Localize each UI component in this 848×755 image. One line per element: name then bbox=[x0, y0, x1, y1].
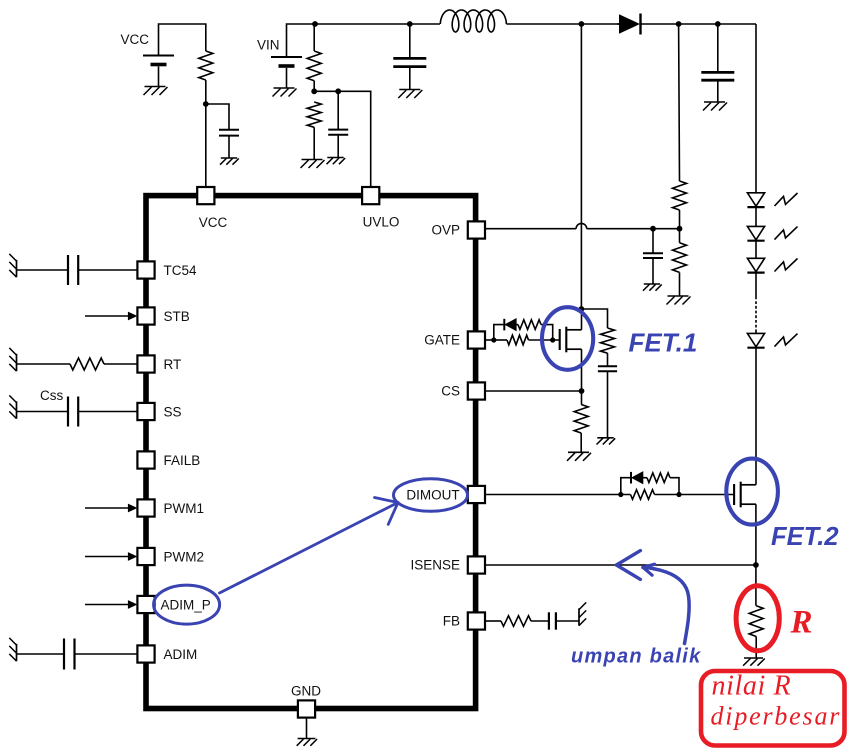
arrow into STB pin bbox=[85, 312, 137, 321]
wire to last LED bbox=[755, 332, 757, 334]
annotation arrow ADIM_P to DIMOUT bbox=[220, 498, 399, 594]
pin SS bbox=[137, 403, 154, 420]
ground under VCC battery bbox=[144, 87, 168, 96]
pin OVP bbox=[468, 221, 485, 238]
pin UVLO bbox=[362, 187, 379, 204]
wire lower resistor to ground bbox=[313, 127, 315, 159]
svg-text:RT: RT bbox=[164, 357, 182, 372]
node output-cap junction bbox=[715, 21, 721, 27]
wire snubber cap to ground bbox=[607, 371, 609, 438]
resistor UVLO divider upper bbox=[307, 51, 321, 81]
resistor current sense R-cs bbox=[574, 405, 588, 434]
annotation ellipse DIMOUT bbox=[394, 479, 468, 512]
wire divider cap to ground bbox=[337, 135, 339, 158]
wire inductor to switch node bbox=[506, 23, 619, 25]
ground under OVP cap bbox=[643, 284, 662, 291]
pin label OVP bbox=[431, 223, 460, 238]
capacitor OVP filter bbox=[643, 253, 663, 258]
wire junction to VCC cap bbox=[206, 104, 229, 130]
svg-text:R: R bbox=[790, 605, 813, 641]
wire TC54 cap to pin bbox=[78, 269, 137, 271]
node divider-cap junction bbox=[335, 88, 341, 94]
ground RT side bbox=[9, 348, 16, 371]
ground TC54 side bbox=[9, 254, 16, 277]
node switch junction bbox=[579, 21, 585, 27]
wire sense node to resistor bbox=[581, 391, 583, 405]
wire VIN battery to rail bbox=[287, 24, 316, 57]
svg-text:PWM1: PWM1 bbox=[164, 501, 205, 516]
node CS junction bbox=[579, 388, 585, 394]
capacitor FB filter bbox=[549, 612, 556, 629]
ground ADIM side bbox=[9, 638, 16, 661]
wire divider resistor to node bbox=[313, 81, 315, 92]
wire FET2 source to ISENSE node bbox=[755, 504, 757, 565]
pin CS bbox=[468, 382, 485, 399]
wire RT ground to resistor bbox=[17, 363, 71, 365]
ground under snubber bbox=[597, 438, 616, 445]
svg-text:UVLO: UVLO bbox=[363, 215, 400, 230]
pin GND bbox=[298, 700, 315, 717]
svg-text:diperbesar: diperbesar bbox=[711, 702, 842, 731]
annotation ellipse ADIM_P bbox=[154, 585, 220, 624]
resistor dim gate drive bbox=[631, 490, 655, 500]
svg-text:FB: FB bbox=[443, 614, 460, 629]
wire divider node to UVLO pin bbox=[314, 91, 371, 187]
node drain-snubber junction bbox=[579, 306, 585, 312]
pin label ISENSE bbox=[410, 558, 460, 573]
pin VCC bbox=[197, 187, 214, 204]
wire FB cap to ground bbox=[556, 620, 579, 622]
annotation curved arrow umpan balik bbox=[643, 564, 689, 643]
capacitor VCC bypass bbox=[219, 130, 239, 136]
wire OVP cap to ground bbox=[652, 258, 654, 284]
wire GATE pin to gate node bbox=[486, 339, 494, 341]
wire VCC cap to ground bbox=[228, 136, 230, 158]
resistor FB filter bbox=[501, 616, 531, 627]
node VCC supply label bbox=[121, 32, 150, 47]
wire dim resistor to gate bbox=[655, 494, 735, 496]
pin label PWM2 bbox=[164, 549, 205, 564]
ground under resistor R bbox=[743, 658, 765, 666]
capacitor output C-out bbox=[701, 72, 734, 80]
annotation ellipse FET.1 bbox=[542, 307, 593, 370]
LED D5 bbox=[747, 333, 797, 347]
annotation ellipse FET.2 bbox=[726, 459, 778, 525]
annotation box nilai R bbox=[701, 671, 845, 746]
svg-text:OVP: OVP bbox=[431, 223, 460, 238]
annotation text FET.2 bbox=[771, 523, 839, 551]
pin ADIM bbox=[137, 645, 154, 662]
pin label ADIM bbox=[164, 647, 198, 662]
wire FET1 drain bbox=[581, 309, 583, 330]
wire OVP resistor to OVP node bbox=[679, 210, 681, 229]
ground under GND pin bbox=[297, 739, 317, 746]
ground under VIN battery bbox=[273, 88, 297, 97]
svg-text:umpan balik: umpan balik bbox=[571, 646, 701, 668]
wire CS pin to sense node bbox=[486, 390, 582, 392]
wire FB pin to resistor bbox=[486, 620, 501, 622]
wire output cap to ground bbox=[717, 80, 719, 102]
arrow into ADIM_P pin bbox=[85, 600, 137, 609]
annotation text FET.1 bbox=[629, 328, 698, 358]
resistor R sense bbox=[749, 606, 763, 637]
resistor gate turn-off bbox=[518, 320, 541, 330]
wire LED string to FET2 drain bbox=[755, 348, 757, 485]
capacitor ADIM series bbox=[64, 639, 75, 670]
pin FB bbox=[468, 612, 485, 629]
wire snubber branch bbox=[581, 309, 607, 328]
value label Css bbox=[40, 388, 63, 403]
wire TC54 ground to cap bbox=[17, 269, 69, 271]
ground SS side bbox=[9, 395, 16, 418]
annotation text nilai R bbox=[712, 671, 792, 702]
IC body outline U1 bbox=[146, 196, 476, 709]
pin label DIMOUT bbox=[406, 488, 459, 503]
svg-text:DIMOUT: DIMOUT bbox=[406, 488, 459, 503]
wire diode to output rail bbox=[641, 23, 757, 25]
node dim branch left bbox=[618, 492, 623, 497]
wire OVP lower resistor to ground bbox=[679, 272, 681, 296]
capacitor snubber bbox=[598, 366, 617, 371]
wire rail to divider resistor bbox=[313, 24, 315, 51]
pin TC54 bbox=[137, 261, 154, 278]
pin label STB bbox=[164, 309, 190, 324]
inductor L1 boost coil bbox=[440, 10, 506, 32]
svg-text:FET.2: FET.2 bbox=[771, 523, 839, 551]
svg-text:PWM2: PWM2 bbox=[164, 549, 205, 564]
wire OVP pin segment bbox=[486, 228, 576, 230]
wire DIMOUT pin to gate network bbox=[486, 494, 631, 496]
resistor VCC series bbox=[199, 51, 213, 80]
wire hop over switch line bbox=[576, 223, 587, 228]
pin GATE bbox=[468, 331, 485, 348]
wire gate upper branch left bbox=[494, 325, 505, 340]
svg-text:SS: SS bbox=[164, 404, 182, 419]
capacitor Css soft-start bbox=[68, 397, 78, 427]
resistor OVP divider upper bbox=[673, 181, 687, 210]
node OVP-cap junction bbox=[650, 226, 656, 232]
wire resistor R to ground bbox=[755, 637, 757, 659]
wire GND pin to ground bbox=[306, 717, 308, 739]
resistor dim turn-off bbox=[647, 473, 670, 483]
pin FAILB bbox=[137, 451, 154, 468]
wire snubber resistor to cap bbox=[607, 353, 609, 366]
wire node to resistor R bbox=[755, 565, 757, 606]
wire output rail to LED string bbox=[755, 24, 757, 297]
node ISENSE junction bbox=[753, 562, 759, 568]
wire dim upper branch left bbox=[621, 478, 631, 495]
wire OVP to divider node bbox=[587, 228, 680, 230]
diode dim turn-off bbox=[631, 472, 643, 484]
ground under divider bbox=[301, 160, 325, 169]
pin label RT bbox=[164, 357, 182, 372]
wire resistor to VCC pin bbox=[205, 80, 207, 187]
svg-text:VCC: VCC bbox=[199, 215, 228, 230]
pin label GATE bbox=[424, 333, 460, 348]
wire sense resistor to ground bbox=[580, 433, 582, 452]
wire diode anode stub bbox=[617, 23, 620, 25]
svg-text:nilai R: nilai R bbox=[712, 671, 792, 702]
svg-text:ISENSE: ISENSE bbox=[410, 558, 460, 573]
svg-text:ADIM: ADIM bbox=[164, 647, 198, 662]
annotation text R bbox=[790, 605, 813, 641]
wire OVP node to lower resistor bbox=[679, 229, 681, 243]
capacitor input filter C-in bbox=[393, 58, 426, 66]
node dim branch right bbox=[676, 492, 681, 497]
annotation ellipse R bbox=[736, 586, 779, 651]
pin PWM2 bbox=[137, 548, 154, 565]
wire SS cap to pin bbox=[78, 411, 137, 413]
svg-text:FAILB: FAILB bbox=[164, 453, 201, 468]
pin DIMOUT bbox=[468, 486, 485, 503]
wire SS ground to cap bbox=[17, 411, 69, 413]
wire input cap to ground bbox=[409, 67, 411, 90]
wire FB resistor to cap bbox=[531, 620, 549, 622]
svg-text:GATE: GATE bbox=[424, 333, 460, 348]
node OVP divider midpoint bbox=[677, 226, 683, 232]
node UVLO divider midpoint bbox=[311, 88, 317, 94]
capacitor UVLO filter bbox=[328, 130, 348, 135]
wire OVP cap stub bbox=[652, 229, 654, 253]
ground under input cap bbox=[398, 90, 422, 99]
wire dotted LED continuation bbox=[755, 297, 757, 332]
pin label UVLO bbox=[363, 215, 400, 230]
ground under divider cap bbox=[327, 158, 346, 165]
wire output cap stub bbox=[717, 24, 719, 72]
transistor Q1 MOSFET FET.1 bbox=[560, 327, 582, 353]
resistor RT timing bbox=[70, 358, 104, 370]
svg-text:CS: CS bbox=[441, 384, 460, 399]
wire VCC battery to resistor bbox=[159, 24, 206, 56]
svg-text:VCC: VCC bbox=[121, 32, 150, 47]
diode gate turn-off bbox=[504, 319, 516, 331]
resistor gate drive bbox=[507, 335, 529, 345]
node rail-divider junction bbox=[312, 21, 318, 27]
wire RT resistor to pin bbox=[104, 363, 137, 365]
wire rail to input cap bbox=[409, 24, 411, 58]
node junction VCC-cap bbox=[203, 101, 209, 107]
resistor UVLO divider lower bbox=[307, 102, 321, 127]
VCC source battery B1 bbox=[143, 56, 174, 87]
wire ADIM cap to pin bbox=[75, 653, 138, 655]
pin label TC54 bbox=[164, 263, 198, 278]
transistor Q2 MOSFET FET.2 bbox=[734, 482, 756, 508]
resistor snubber bbox=[601, 328, 615, 353]
arrow into PWM1 pin bbox=[85, 504, 137, 513]
svg-text:FET.1: FET.1 bbox=[629, 328, 698, 358]
svg-text:GND: GND bbox=[291, 684, 321, 699]
pin label FAILB bbox=[164, 453, 201, 468]
svg-text:TC54: TC54 bbox=[164, 263, 198, 278]
annotation arrowhead on ISENSE wire bbox=[616, 551, 640, 580]
pin ISENSE bbox=[468, 556, 485, 573]
svg-text:STB: STB bbox=[164, 309, 190, 324]
wire FET1 source to CS node bbox=[581, 349, 583, 391]
pin RT bbox=[137, 355, 154, 372]
wire output junction to OVP resistor bbox=[678, 24, 681, 181]
ground under output cap bbox=[703, 102, 727, 111]
resistor OVP divider lower bbox=[673, 243, 687, 273]
pin ADIM_P bbox=[137, 596, 154, 613]
pin label GND bbox=[291, 684, 321, 699]
ground under VCC cap bbox=[220, 158, 239, 165]
node output-divider junction bbox=[676, 21, 682, 27]
capacitor TC54 series bbox=[68, 255, 78, 285]
pin PWM1 bbox=[137, 499, 154, 516]
LED D2 bbox=[747, 193, 797, 207]
node VIN supply label bbox=[257, 38, 280, 53]
VIN source battery B2 bbox=[271, 57, 302, 88]
wire node to divider cap bbox=[337, 91, 339, 129]
ground FB side bbox=[579, 602, 586, 625]
node gate branch right bbox=[550, 337, 555, 342]
wire top input rail bbox=[315, 23, 440, 25]
pin label SS bbox=[164, 404, 182, 419]
svg-text:ADIM_P: ADIM_P bbox=[161, 598, 211, 613]
diode D1 boost rectifier bbox=[619, 14, 641, 35]
pin label CS bbox=[441, 384, 460, 399]
LED D4 bbox=[747, 258, 797, 272]
wire dim upper branch right bbox=[643, 478, 679, 495]
node rail-input-cap junction bbox=[407, 21, 413, 27]
pin label VCC bbox=[199, 215, 228, 230]
wire ADIM ground to cap bbox=[17, 653, 65, 655]
wire gate upper branch right bbox=[516, 325, 553, 340]
wire gate resistor leads bbox=[494, 339, 560, 341]
LED D3 bbox=[747, 226, 797, 240]
svg-text:Css: Css bbox=[40, 388, 63, 403]
pin label ADIM_P bbox=[161, 598, 211, 613]
wire ISENSE pin to sense node bbox=[486, 564, 756, 566]
ground under OVP divider bbox=[667, 296, 691, 305]
annotation text diperbesar bbox=[711, 702, 842, 731]
pin STB bbox=[137, 307, 154, 324]
svg-text:VIN: VIN bbox=[257, 38, 280, 53]
wire switch node to drain bbox=[580, 24, 582, 309]
annotation text umpan balik bbox=[571, 646, 701, 668]
pin label PWM1 bbox=[164, 501, 205, 516]
ground under sense resistor bbox=[567, 452, 591, 461]
arrow into PWM2 pin bbox=[85, 552, 137, 561]
pin label FB bbox=[443, 614, 460, 629]
node gate branch left bbox=[491, 337, 496, 342]
